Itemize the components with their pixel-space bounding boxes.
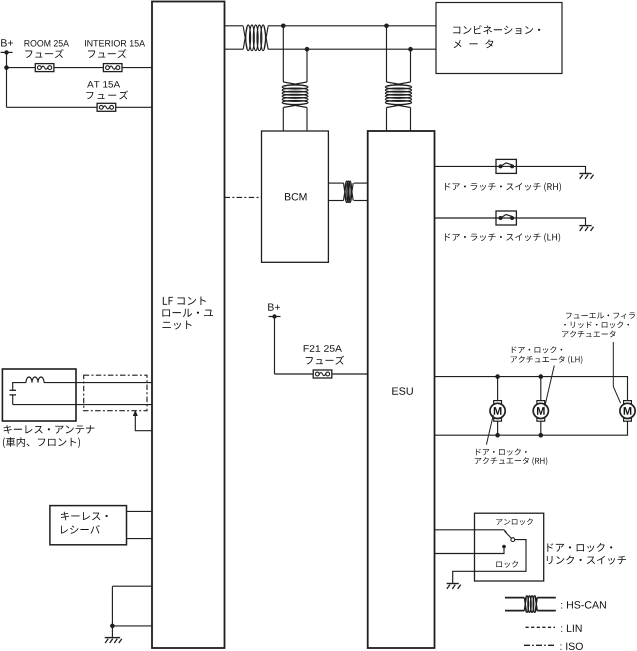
legend HS-CAN line lower-right: [537, 610, 556, 612]
label AT 15A: [87, 81, 120, 87]
unlock contact tick: [504, 530, 506, 533]
label LF コント: [163, 296, 206, 305]
wire receiver to LF upper: [127, 510, 153, 512]
junction motor LH lower: [539, 433, 544, 438]
wire ESU to door latch switch LH: [435, 218, 586, 226]
label B+ (top left): [1, 39, 13, 46]
wire ISO line LF to BCM: [225, 196, 262, 198]
wire shield drain to LF: [135, 415, 152, 431]
wire CAN-L LF to coil: [225, 48, 244, 50]
wire B+ vertical drop: [6, 52, 8, 107]
twisted-pair coil ESU drop: [385, 82, 411, 108]
ESU box U3: [368, 131, 435, 648]
fuse symbol ROOM 25A: [35, 64, 54, 72]
label ドア・ロック・ (LH): [512, 346, 562, 353]
label legend : HS-CAN: [561, 601, 606, 608]
legend HS-CAN coil: [524, 596, 537, 613]
label メータ: [454, 39, 494, 48]
junction motor RH upper: [495, 374, 500, 379]
label ドア・ロック・ (link): [547, 543, 612, 552]
label INTERIOR fuse フューズ: [88, 49, 126, 58]
junction CAN-L BCM tap: [305, 47, 310, 52]
wire ESU drop lower left: [386, 108, 388, 132]
wire BCM drop lower right: [306, 108, 308, 132]
label ROOM 25A: [24, 40, 68, 47]
twisted-pair coil LF-bus: [243, 25, 268, 51]
leader line actuator LH label: [545, 366, 555, 407]
junction node at B+ branch: [4, 65, 9, 70]
label リンク・スイッチ: [547, 555, 626, 564]
keyless antenna box: [2, 369, 76, 421]
wire antenna capacitor bottom: [12, 395, 14, 405]
label legend : LIN: [561, 625, 581, 632]
junction CAN-H BCM tap: [281, 24, 286, 29]
leader line fuel filler actuator label: [613, 342, 620, 403]
shield (dash-dot) around antenna wires: [84, 375, 147, 411]
fuse symbol INTERIOR 15A: [103, 64, 122, 72]
wire ESU CAN-L drop upper: [410, 49, 412, 82]
label アンロック: [496, 518, 533, 525]
label ロック: [496, 561, 518, 568]
label ドア・ロック・ (RH): [476, 448, 526, 455]
label B+ (center): [268, 303, 280, 310]
ground LF control unit: [105, 638, 122, 643]
wire link switch common to ground: [453, 540, 526, 584]
wire ESU to link switch unlock: [435, 529, 505, 531]
motor door lock actuator RH: [490, 401, 505, 422]
wire BCM CAN-L drop upper: [306, 49, 308, 82]
wire BCM drop lower left: [282, 108, 284, 132]
lock contact dot: [502, 545, 506, 549]
wire antenna inductor left: [13, 383, 26, 391]
legend HS-CAN line upper-right: [537, 597, 556, 599]
wire motor LH lower: [540, 421, 542, 435]
ground door latch RH: [579, 174, 593, 179]
label ニット: [162, 320, 191, 329]
label ・リッド・ロック・: [564, 321, 629, 328]
LF control unit U1: [152, 2, 225, 649]
label アクチュエータ (LH): [511, 356, 583, 364]
combination meter box: [436, 3, 562, 74]
wire LF ground loop lower: [112, 625, 152, 627]
twisted-pair coil BCM-ESU: [344, 181, 354, 202]
label ドア・ラッチ・スイッチ (RH): [445, 183, 561, 192]
label アクチュエータ (RH): [475, 457, 547, 465]
label INTERIOR 15A: [85, 40, 145, 47]
inductor L1 keyless antenna: [26, 377, 44, 383]
leader line actuator RH label: [486, 415, 493, 445]
ground door latch LH: [579, 226, 593, 231]
BCM box U2: [262, 131, 329, 262]
label コンビネーション・: [453, 25, 540, 34]
wire receiver to LF lower: [127, 538, 153, 540]
wire CAN-L bus to meter: [268, 48, 436, 50]
wire motor RH lower: [497, 421, 499, 435]
label F21 25A: [304, 345, 342, 352]
label レシーバ: [61, 525, 100, 534]
wire CAN-H LF to coil: [225, 25, 244, 27]
capacitor C1 keyless antenna: [10, 390, 17, 395]
wire BCM-ESU CAN-L left: [328, 200, 343, 202]
label フューエル・フィラ: [566, 312, 635, 319]
wire BCM-ESU CAN-H left: [328, 182, 343, 184]
label キーレス・アンテナ: [4, 425, 95, 434]
wire ESU CAN-H drop upper: [386, 26, 388, 82]
wire actuator bus upper: [435, 377, 628, 401]
door latch switch LH: [496, 211, 516, 225]
legend HS-CAN line upper-left: [505, 597, 524, 599]
B+ terminal (top left): [1, 50, 13, 54]
switch pivot (open circle): [511, 538, 515, 542]
wire actuator bus lower: [435, 421, 628, 435]
wire ESU to link switch lock: [435, 548, 505, 553]
label ROOM fuse フューズ: [25, 49, 63, 58]
wire LF ground loop vertical: [111, 586, 113, 637]
shield drain arrow: [133, 410, 138, 416]
label (車内、フロント): [3, 437, 80, 448]
wire BCM CAN-H drop upper: [282, 26, 284, 82]
wire ESU drop lower right: [410, 108, 412, 132]
fuse symbol F21 25A: [313, 370, 332, 378]
legend HS-CAN line lower-left: [505, 610, 524, 612]
wire B+ F21 vertical: [274, 317, 276, 375]
legend ISO dash-dot line: [524, 644, 556, 646]
wire ROOM/INTERIOR fuse feed: [7, 67, 153, 69]
wire antenna return to LF: [13, 404, 152, 406]
label F21 fuse フューズ: [306, 356, 344, 365]
label ESU: [392, 387, 413, 394]
twisted-pair coil BCM drop: [282, 82, 308, 108]
wire AT fuse feed: [7, 106, 153, 108]
label キーレス・: [61, 512, 108, 521]
label BCM: [285, 193, 306, 200]
keyless receiver box: [50, 506, 127, 545]
wire motor LH upper: [540, 377, 542, 401]
wire ESU to door latch switch RH: [435, 166, 586, 173]
wire motor RH upper: [497, 377, 499, 401]
wire antenna signal to LF: [44, 382, 152, 384]
junction motor LH upper: [539, 374, 544, 379]
B+ terminal (center): [269, 314, 281, 318]
wire BCM-ESU CAN-L right: [354, 200, 368, 202]
wire F21 to ESU: [275, 373, 368, 375]
junction CAN-L ESU tap: [408, 47, 413, 52]
fuse symbol AT 15A: [97, 103, 116, 111]
label AT fuse フューズ: [86, 91, 128, 100]
door lock link switch box: [475, 513, 544, 581]
motor door lock actuator LH: [533, 401, 548, 422]
motor fuel filler lid lock actuator: [620, 401, 635, 422]
wire CAN-H bus to meter: [268, 25, 436, 27]
switch blade link switch: [505, 531, 512, 538]
junction motor RH lower: [495, 433, 500, 438]
label legend : ISO: [560, 643, 582, 650]
junction LF ground node: [110, 624, 115, 629]
legend LIN dashed line: [526, 626, 556, 628]
wire BCM-ESU CAN-H right: [354, 182, 368, 184]
junction CAN-H ESU tap: [384, 24, 389, 29]
label アクチュエータ (fuel): [562, 331, 615, 338]
door latch switch RH: [496, 159, 516, 173]
wire LF ground loop upper: [112, 585, 152, 587]
label ドア・ラッチ・スイッチ (LH): [445, 233, 560, 242]
label ロール・ユ: [162, 309, 213, 317]
ground link switch: [447, 584, 461, 589]
